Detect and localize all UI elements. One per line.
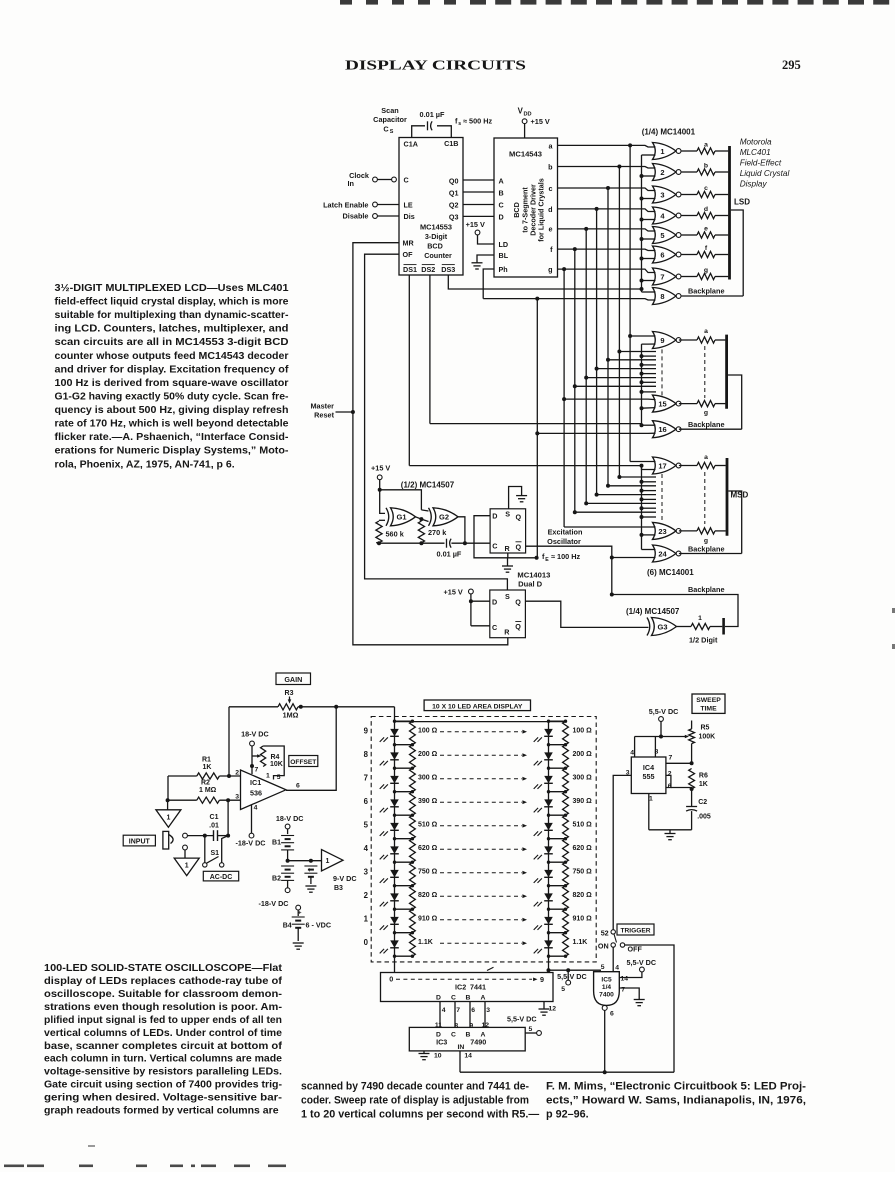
LED column-left diode row 1 xyxy=(394,909,396,933)
svg-text:9: 9 xyxy=(469,1023,473,1030)
stub DS2 tap (omitted gate 14) xyxy=(642,391,657,393)
svg-text:G1-G2 having exactly 50% duty: G1-G2 having exactly 50% duty cycle. Sca… xyxy=(55,390,289,402)
stub DS1 tap (omitted gate 20) xyxy=(642,498,657,500)
svg-text:BL: BL xyxy=(499,251,509,260)
svg-text:910 Ω: 910 Ω xyxy=(418,916,438,923)
svg-text:Q: Q xyxy=(515,598,521,607)
svg-text:≈ 100 Hz: ≈ 100 Hz xyxy=(551,552,581,561)
svg-text:390 Ω: 390 Ω xyxy=(418,798,438,805)
wire 555 ground rail xyxy=(649,829,692,831)
LCD segment bus bar (LSD digit) xyxy=(728,146,731,280)
svg-text:LSD: LSD xyxy=(734,198,750,207)
ground (555) xyxy=(669,830,671,833)
svg-text:9: 9 xyxy=(660,336,664,345)
svg-text:e: e xyxy=(704,226,708,233)
wire C2 to ground rail xyxy=(691,811,693,830)
svg-text:10 X 10 LED AREA DISPLAY: 10 X 10 LED AREA DISPLAY xyxy=(432,703,523,710)
LED column-left diode row 5 xyxy=(394,815,396,839)
svg-text:Liquid Crystal: Liquid Crystal xyxy=(740,169,790,178)
dashed repeat arrow row 6 xyxy=(440,801,522,803)
svg-text:620 Ω: 620 Ω xyxy=(573,845,593,852)
svg-text:1: 1 xyxy=(266,773,270,780)
svg-text:a: a xyxy=(704,328,708,335)
wire segment g to gate 23 top xyxy=(564,526,655,528)
svg-text:SWEEP: SWEEP xyxy=(696,697,721,704)
LED column-left diode row 6 xyxy=(394,792,396,816)
svg-text:1 MΩ: 1 MΩ xyxy=(199,787,217,794)
resistor segment g (LSD) xyxy=(681,276,697,278)
wire R4 top loop xyxy=(263,746,284,780)
wire segment e vertical xyxy=(585,229,587,504)
svg-text:7441: 7441 xyxy=(470,983,486,992)
wire C1B stub xyxy=(437,126,451,138)
svg-text:s: s xyxy=(458,121,461,127)
wire segment a row xyxy=(558,145,656,147)
svg-text:18-V DC: 18-V DC xyxy=(276,814,304,823)
svg-text:Q: Q xyxy=(515,622,521,631)
svg-text:R1: R1 xyxy=(202,757,211,764)
connector triangle 1 (amp input) xyxy=(156,810,181,828)
wire gate 15 lower input xyxy=(642,407,656,410)
svg-text:ing LCD. Counters, latches, mu: ing LCD. Counters, latches, multiplexer,… xyxy=(55,323,289,335)
svg-text:7400: 7400 xyxy=(599,992,614,999)
wire segment f vertical xyxy=(574,249,576,512)
svg-text:ON: ON xyxy=(598,941,609,950)
svg-text:d: d xyxy=(704,206,708,213)
svg-text:5: 5 xyxy=(364,821,369,830)
svg-text:7: 7 xyxy=(621,987,625,994)
wire left column to IC2 xyxy=(394,956,396,972)
dashed repeat arrow row 2 xyxy=(440,895,522,897)
wire oscillator RC bottom xyxy=(377,542,445,544)
svg-text:Q3: Q3 xyxy=(449,213,459,222)
dashed omitted-gates region (middle) xyxy=(661,349,663,395)
stub DS1 tap (omitted gate 19) xyxy=(642,490,657,492)
wire segment a to gate 17 top xyxy=(630,461,655,463)
svg-text:1/4: 1/4 xyxy=(602,984,611,991)
wire OFF to bottom rail xyxy=(625,945,674,1072)
resistor 100 (right column) xyxy=(563,721,569,745)
svg-text:Dual D: Dual D xyxy=(518,579,543,588)
svg-text:100K: 100K xyxy=(699,734,716,741)
svg-text:quency is about 500 Hz, giving: quency is about 500 Hz, giving display r… xyxy=(55,404,289,416)
wire segment a vertical xyxy=(629,145,631,461)
wire segment c row xyxy=(558,188,656,191)
svg-text:C1A: C1A xyxy=(404,140,418,149)
NOR gate 23 xyxy=(653,522,677,539)
wire G2 output to clock node xyxy=(458,517,465,543)
svg-text:0.01 µF: 0.01 µF xyxy=(420,110,445,119)
wire feedback left leg xyxy=(228,707,230,776)
svg-text:IC2: IC2 xyxy=(455,983,466,992)
dashed repeat arrow row 3 xyxy=(440,872,522,874)
svg-text:1K: 1K xyxy=(699,781,708,788)
wire master reset stub xyxy=(336,411,353,413)
wire Q0-A xyxy=(463,179,494,181)
wire DS2 to gate 16 xyxy=(430,423,642,425)
svg-text:S: S xyxy=(505,510,510,519)
capacitor C1 .01 xyxy=(213,830,215,841)
svg-text:coder. Sweep rate of display i: coder. Sweep rate of display is adjustab… xyxy=(301,1094,529,1106)
input jack xyxy=(163,831,169,849)
svg-text:0.01 µF: 0.01 µF xyxy=(437,550,462,559)
svg-text:270 k: 270 k xyxy=(428,528,447,537)
svg-text:BCD: BCD xyxy=(427,242,443,251)
svg-text:gering when desired. Voltage-s: gering when desired. Voltage-sensitive b… xyxy=(44,1092,283,1104)
svg-text:1: 1 xyxy=(660,147,664,156)
svg-text:Q2: Q2 xyxy=(449,201,459,210)
NAND gate IC5 1/4 7400 (pointing down) xyxy=(594,972,620,1006)
svg-text:5: 5 xyxy=(660,231,664,240)
resistor segment c (LSD) xyxy=(681,194,697,196)
svg-text:DS2: DS2 xyxy=(421,265,435,274)
svg-text:display of LEDs replaces catho: display of LEDs replaces cathode-ray tub… xyxy=(44,975,283,987)
stub segment tap (omitted gate 13) xyxy=(586,377,656,379)
LED column-left diode row 8 xyxy=(394,745,396,769)
svg-text:+15 V: +15 V xyxy=(466,220,485,229)
NOR gate 8 (MC14001) xyxy=(653,288,677,305)
svg-text:1K: 1K xyxy=(203,764,212,771)
label box TRIGGER xyxy=(617,924,654,935)
svg-text:10K: 10K xyxy=(270,761,283,768)
svg-text:OFFSET: OFFSET xyxy=(290,759,316,766)
svg-text:+15 V: +15 V xyxy=(371,464,390,473)
svg-text:B4: B4 xyxy=(283,923,292,930)
wire segment d row xyxy=(558,209,656,212)
LED column-right diode row 1 xyxy=(548,909,550,933)
svg-text:9-V DC: 9-V DC xyxy=(333,874,357,883)
resistor 1.1K (left column) xyxy=(410,933,416,957)
wire gate 8 output backplane xyxy=(681,295,743,297)
svg-text:4: 4 xyxy=(615,965,619,972)
svg-text:Display: Display xyxy=(740,179,768,188)
svg-text:1: 1 xyxy=(185,863,189,870)
svg-text:(1/4) MC14507: (1/4) MC14507 xyxy=(626,607,680,616)
LED column-right diode row 6 xyxy=(548,792,550,816)
NOR gate 4 (MC14001) xyxy=(653,207,677,224)
svg-text:820 Ω: 820 Ω xyxy=(418,892,438,899)
svg-text:each column in turn. Vertical: each column in turn. Vertical columns ar… xyxy=(44,1053,282,1065)
svg-text:R3: R3 xyxy=(285,690,294,697)
svg-text:≈ 500 Hz: ≈ 500 Hz xyxy=(463,116,493,125)
svg-text:+15 V: +15 V xyxy=(531,117,550,126)
svg-text:2: 2 xyxy=(364,891,369,900)
svg-text:DISPLAY CIRCUITS: DISPLAY CIRCUITS xyxy=(345,57,526,72)
svg-text:2: 2 xyxy=(660,168,664,177)
wire battery common xyxy=(288,860,322,862)
svg-text:a: a xyxy=(704,142,708,149)
svg-text:and driver for display. Excita: and driver for display. Excitation frequ… xyxy=(55,363,290,375)
svg-text:F. M. Mims, “Electronic Circui: F. M. Mims, “Electronic Circuitbook 5: L… xyxy=(546,1081,806,1093)
svg-text:1MΩ: 1MΩ xyxy=(283,711,299,720)
svg-text:3: 3 xyxy=(364,868,369,877)
svg-text:Backplane: Backplane xyxy=(688,545,725,554)
resistor 390 (right column) xyxy=(563,792,569,816)
svg-text:oscilloscope. Suitable for cla: oscilloscope. Suitable for classroom dem… xyxy=(44,988,283,1000)
wire backplane to gate 16 lower input xyxy=(537,432,655,434)
right margin scan marks xyxy=(892,608,895,613)
dashed repeat arrow row 8 xyxy=(440,754,522,756)
wire DS1-vert to gate 24 top xyxy=(642,549,656,551)
svg-text:Backplane: Backplane xyxy=(688,420,725,429)
svg-text:1: 1 xyxy=(698,615,702,622)
resistor R6 1K xyxy=(689,769,695,790)
wire OF line xyxy=(365,254,508,590)
svg-text:100 Ω: 100 Ω xyxy=(418,728,438,735)
wire MR line xyxy=(353,243,508,645)
resistor segment a (MSD) xyxy=(679,465,697,467)
svg-text:100 Hz is derived from square-: 100 Hz is derived from square-wave oscil… xyxy=(55,377,289,389)
NOR gate 15 xyxy=(653,395,677,412)
terminal OFF xyxy=(620,943,624,947)
svg-text:g: g xyxy=(548,265,552,274)
wire gate 5 lower input xyxy=(642,238,656,240)
svg-text:R: R xyxy=(505,544,511,553)
wire segment b vertical xyxy=(618,167,620,478)
svg-text:3½-DIGIT MULTIPLEXED LCD—Uses: 3½-DIGIT MULTIPLEXED LCD—Uses MLC401 xyxy=(55,282,289,294)
dashed repeat arrow row 1 xyxy=(440,919,522,921)
svg-text:16: 16 xyxy=(658,425,666,434)
DS1 common vertical (MSD gate enable) xyxy=(641,466,643,550)
svg-text:1.1K: 1.1K xyxy=(418,939,433,946)
svg-text:R2: R2 xyxy=(201,779,210,786)
NOR gate 17 xyxy=(653,457,677,474)
svg-text:c: c xyxy=(549,184,553,193)
LED column-right diode row 7 xyxy=(548,768,550,792)
svg-text:100-LED SOLID-STATE OSCILLOSCO: 100-LED SOLID-STATE OSCILLOSCOPE—Flat xyxy=(44,962,283,974)
wire Q2-C xyxy=(463,204,494,206)
svg-text:A: A xyxy=(499,177,504,186)
svg-text:g: g xyxy=(704,267,708,274)
resistor 910 (left column) xyxy=(410,909,416,933)
wire output riser xyxy=(286,707,336,790)
bottom nodes of LED columns xyxy=(395,955,413,957)
svg-text:DS3: DS3 xyxy=(441,265,455,274)
wire VDD to MC14543 xyxy=(524,124,526,138)
dashed LED array border xyxy=(371,717,596,962)
LED column-right diode row 4 xyxy=(548,839,550,863)
wire segment e row xyxy=(558,229,656,231)
svg-text:Oscillator: Oscillator xyxy=(547,537,581,546)
IC MC14553 3-digit BCD counter xyxy=(399,138,463,276)
svg-text:LE: LE xyxy=(404,200,413,209)
resistor 620 (left column) xyxy=(410,839,416,863)
LED column-left diode row 2 xyxy=(394,886,396,910)
wire G2 upper input xyxy=(421,510,428,511)
dashed repeat arrow row 4 xyxy=(440,848,522,850)
wire LSD backplane bracket xyxy=(731,210,743,296)
flip-flop FF1 (1/2 MC14013) xyxy=(490,509,525,553)
dashed omitted-gates region (MSD) xyxy=(661,474,663,521)
backplane vertical from Ph line xyxy=(536,299,538,558)
IC2 7441 decoder xyxy=(381,973,554,1002)
svg-text:24: 24 xyxy=(658,549,667,558)
DS3 common vertical (LSD gate enable) xyxy=(641,155,643,292)
svg-text:4: 4 xyxy=(442,1007,446,1014)
wire gate 8 upper input xyxy=(642,291,656,293)
svg-text:Q1: Q1 xyxy=(449,189,459,198)
svg-text:vertical columns of LEDs. Unde: vertical columns of LEDs. Under control … xyxy=(44,1027,282,1039)
capacitor 0.01 uF (oscillator) xyxy=(446,539,448,548)
potentiometer R3 wiper xyxy=(289,697,291,701)
svg-text:100 Ω: 100 Ω xyxy=(573,728,593,735)
battery B1 xyxy=(287,829,289,834)
wire pins 2-6 tie xyxy=(666,775,671,787)
resistor R3 1M xyxy=(278,704,298,710)
stub segment tap (omitted gate 20) xyxy=(597,494,656,496)
svg-text:6: 6 xyxy=(364,797,369,806)
svg-text:560 k: 560 k xyxy=(386,530,405,539)
wire gate 24 output backplane xyxy=(679,553,742,555)
resistor segment a (LSD) xyxy=(681,150,697,152)
stub segment tap (omitted gate 12) xyxy=(597,368,656,370)
stub segment tap (omitted gate 14) xyxy=(575,385,656,387)
wire right column to IC2 xyxy=(548,956,550,972)
svg-text:S1: S1 xyxy=(211,850,220,857)
wire FF1 Qbar output 100Hz xyxy=(526,546,612,594)
svg-text:9: 9 xyxy=(364,727,369,736)
svg-text:(1/4) MC14001: (1/4) MC14001 xyxy=(642,128,696,137)
wire amp output to LED columns top xyxy=(394,707,396,722)
svg-text:1 to 20 vertical columns per s: 1 to 20 vertical columns per second with… xyxy=(301,1108,539,1120)
NOR gate 7 (MC14001) xyxy=(653,268,677,285)
svg-text:12: 12 xyxy=(482,1022,490,1029)
wire R1/R2 left junction xyxy=(167,776,169,800)
svg-text:OFF: OFF xyxy=(628,945,643,954)
svg-text:IC3: IC3 xyxy=(436,1038,447,1047)
resistor 820 (left column) xyxy=(410,886,416,910)
svg-text:scanned by 7490 decade counter: scanned by 7490 decade counter and 7441 … xyxy=(301,1081,529,1093)
svg-text:7490: 7490 xyxy=(470,1038,486,1047)
svg-text:5,5-V DC: 5,5-V DC xyxy=(649,707,679,716)
svg-text:7: 7 xyxy=(456,1007,460,1014)
wire segment g vertical xyxy=(563,269,565,527)
label box AC-DC xyxy=(203,871,238,881)
dashed repeat arrow row 5 xyxy=(440,825,522,827)
svg-text:B1: B1 xyxy=(272,840,281,847)
svg-text:A: A xyxy=(481,994,486,1001)
ground above FF1 xyxy=(509,487,522,509)
wire G1 lower input / 560k top xyxy=(379,519,385,521)
resistor 620 (right column) xyxy=(563,839,569,863)
XOR gate G2 xyxy=(429,508,432,526)
resistor 510 (left column) xyxy=(410,815,416,839)
potentiometer R5 100K xyxy=(691,721,693,729)
resistor 300 (right column) xyxy=(563,768,569,792)
resistor 200 (right column) xyxy=(563,745,569,769)
battery B4 xyxy=(296,905,301,910)
svg-text:C: C xyxy=(383,124,389,133)
svg-text:DS1: DS1 xyxy=(403,265,417,274)
wire 555 pin3 to trigger switch xyxy=(613,775,631,929)
wire backplane to half-digit xyxy=(612,595,738,627)
svg-text:G1: G1 xyxy=(396,513,406,522)
svg-text:plified input signal is fed to: plified input signal is fed to upper end… xyxy=(44,1014,282,1026)
svg-text:620 Ω: 620 Ω xyxy=(418,845,438,852)
resistor 750 (left column) xyxy=(410,862,416,886)
stub DS2 tap (omitted gate 10) xyxy=(642,355,657,357)
svg-text:6: 6 xyxy=(660,250,664,259)
svg-text:Backplane: Backplane xyxy=(688,287,725,296)
svg-text:AC-DC: AC-DC xyxy=(210,874,233,881)
wire backplane to gate 24 lower xyxy=(612,557,656,559)
svg-text:C: C xyxy=(492,623,497,632)
svg-text:C: C xyxy=(499,201,504,210)
op-amp IC1 536 xyxy=(241,770,287,810)
svg-text:Ph: Ph xyxy=(499,265,508,274)
LED column-left diode row 7 xyxy=(394,768,396,792)
resistor 270k xyxy=(418,521,424,543)
svg-text:6: 6 xyxy=(610,1011,614,1018)
wire segment b row xyxy=(558,167,656,169)
svg-text:4: 4 xyxy=(630,750,634,757)
flip-flop FF2 (1/2 MC14013) xyxy=(490,590,526,638)
resistor segment a (middle) xyxy=(679,339,697,341)
svg-text:b: b xyxy=(704,163,708,170)
NOR gate 9 xyxy=(653,332,677,349)
svg-text:D: D xyxy=(436,994,441,1001)
wire DS1 drop xyxy=(408,275,410,466)
capacitor 0.01 uF (scan) xyxy=(427,121,429,130)
svg-text:MLC401: MLC401 xyxy=(740,148,771,157)
label box SWEEP TIME xyxy=(692,694,725,713)
stub DS2 tap (omitted gate 12) xyxy=(642,373,657,375)
svg-text:GAIN: GAIN xyxy=(284,675,302,684)
resistor R4 10K xyxy=(261,746,266,767)
wire LE xyxy=(377,204,399,206)
resistor 910 (right column) xyxy=(563,909,569,933)
LED column-left diode row 4 xyxy=(394,839,396,863)
wire pin8 stub xyxy=(654,737,656,758)
wire pin7 to R5/R6 xyxy=(666,762,692,764)
wire gate 4 lower input xyxy=(642,219,656,221)
svg-text:C2: C2 xyxy=(698,799,707,806)
svg-text:3-Digit: 3-Digit xyxy=(425,232,448,241)
NOR gate 5 (MC14001) xyxy=(653,227,677,244)
wire segment a to gate 9 top xyxy=(630,335,655,337)
wire IC3 pin14 to rail xyxy=(459,1051,461,1072)
svg-text:MC14543: MC14543 xyxy=(509,150,542,159)
svg-text:Gate circuit using section of: Gate circuit using section of 7400 provi… xyxy=(44,1079,282,1091)
svg-text:R4: R4 xyxy=(271,754,280,761)
ground (IC5) xyxy=(634,999,645,1001)
LED column-left diode row 3 xyxy=(394,862,396,886)
svg-text:23: 23 xyxy=(658,527,666,536)
svg-text:8: 8 xyxy=(660,292,664,301)
svg-text:5: 5 xyxy=(561,986,565,993)
label box GAIN xyxy=(276,673,311,685)
wire DS1 to gate 17 lower xyxy=(409,466,655,470)
svg-text:In: In xyxy=(348,179,355,188)
stub DS1 tap (omitted gate 18) xyxy=(642,481,657,483)
svg-text:MC14553: MC14553 xyxy=(420,223,452,232)
svg-text:C: C xyxy=(451,1032,456,1039)
svg-text:graph readouts formed by verti: graph readouts formed by vertical column… xyxy=(44,1105,279,1117)
svg-text:S: S xyxy=(505,592,510,601)
connector triangle 1 (input) xyxy=(174,858,199,876)
svg-text:(6) MC14001: (6) MC14001 xyxy=(647,568,694,577)
svg-text:IC4: IC4 xyxy=(643,763,654,772)
wire LD xyxy=(478,235,495,244)
svg-text:1: 1 xyxy=(364,915,369,924)
svg-text:IN: IN xyxy=(457,1044,464,1051)
wire 555 supply xyxy=(660,721,662,736)
NOR gate 2 (MC14001) xyxy=(653,164,677,181)
IC2 pin12 ground xyxy=(543,1002,545,1009)
svg-text:base, scanner completes circui: base, scanner completes circuit at botto… xyxy=(44,1040,283,1052)
IC3 7490 decade counter xyxy=(409,1027,525,1051)
resistor segment g (MSD) xyxy=(679,530,697,532)
